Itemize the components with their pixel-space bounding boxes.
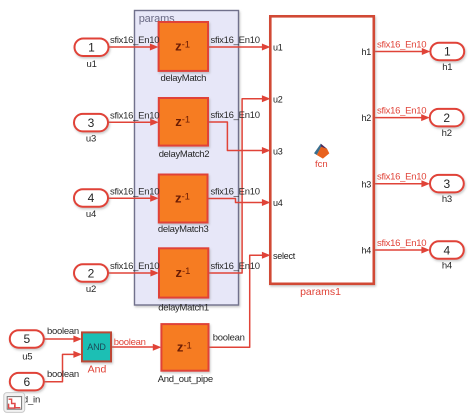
svg-text:1: 1 — [444, 45, 451, 59]
svg-text:h3: h3 — [442, 194, 452, 205]
svg-text:2: 2 — [443, 111, 450, 125]
svg-text:2: 2 — [88, 266, 95, 280]
svg-text:h3: h3 — [361, 179, 371, 189]
svg-text:u1: u1 — [273, 42, 283, 52]
svg-text:boolean: boolean — [47, 369, 79, 380]
svg-text:delayMatch3: delayMatch3 — [158, 224, 209, 235]
svg-text:boolean: boolean — [114, 337, 146, 348]
svg-text:h1: h1 — [442, 62, 452, 73]
svg-text:h4: h4 — [442, 260, 452, 271]
svg-text:4: 4 — [444, 243, 451, 257]
svg-text:h4: h4 — [361, 246, 371, 256]
svg-text:4: 4 — [88, 191, 95, 205]
svg-text:u3: u3 — [273, 146, 283, 156]
svg-text:u4: u4 — [273, 198, 283, 208]
svg-text:delayMatch2: delayMatch2 — [159, 149, 210, 160]
svg-text:sfix16_En10: sfix16_En10 — [110, 35, 159, 46]
svg-text:sfix16_En10: sfix16_En10 — [211, 261, 260, 272]
svg-text:sfix16_En10: sfix16_En10 — [211, 35, 260, 46]
svg-text:3: 3 — [88, 116, 95, 130]
svg-text:select: select — [273, 251, 296, 261]
svg-text:u3: u3 — [86, 134, 96, 145]
svg-text:sfix16_En10: sfix16_En10 — [211, 110, 260, 121]
svg-text:u2: u2 — [86, 284, 96, 295]
svg-text:And: And — [88, 364, 107, 376]
svg-text:AND: AND — [87, 342, 106, 352]
svg-text:5: 5 — [23, 332, 30, 346]
svg-text:sfix16_En10: sfix16_En10 — [377, 172, 426, 183]
svg-text:sfix16_En10: sfix16_En10 — [110, 110, 159, 121]
svg-text:params1: params1 — [300, 286, 341, 298]
svg-text:sfix16_En10: sfix16_En10 — [377, 106, 426, 117]
svg-text:delayMatch: delayMatch — [161, 73, 207, 84]
svg-text:delayMatch1: delayMatch1 — [158, 302, 209, 313]
svg-text:h2: h2 — [442, 128, 452, 139]
svg-text:boolean: boolean — [47, 326, 79, 337]
svg-text:sfix16_En10: sfix16_En10 — [377, 40, 426, 51]
svg-text:sfix16_En10: sfix16_En10 — [211, 187, 260, 198]
svg-text:h2: h2 — [361, 113, 371, 123]
svg-text:fcn: fcn — [315, 159, 328, 170]
svg-text:h1: h1 — [361, 47, 371, 57]
svg-text:u5: u5 — [22, 352, 32, 363]
svg-text:And_out_pipe: And_out_pipe — [158, 374, 213, 385]
svg-text:sfix16_En10: sfix16_En10 — [110, 261, 159, 272]
svg-text:boolean: boolean — [213, 333, 245, 344]
svg-text:u1: u1 — [87, 59, 97, 70]
svg-text:3: 3 — [444, 177, 451, 191]
svg-text:6: 6 — [23, 375, 30, 389]
svg-text:u2: u2 — [273, 94, 283, 104]
svg-text:u4: u4 — [86, 209, 96, 220]
svg-text:sfix16_En10: sfix16_En10 — [110, 186, 159, 197]
svg-text:sfix16_En10: sfix16_En10 — [377, 238, 426, 249]
svg-text:1: 1 — [88, 41, 95, 55]
